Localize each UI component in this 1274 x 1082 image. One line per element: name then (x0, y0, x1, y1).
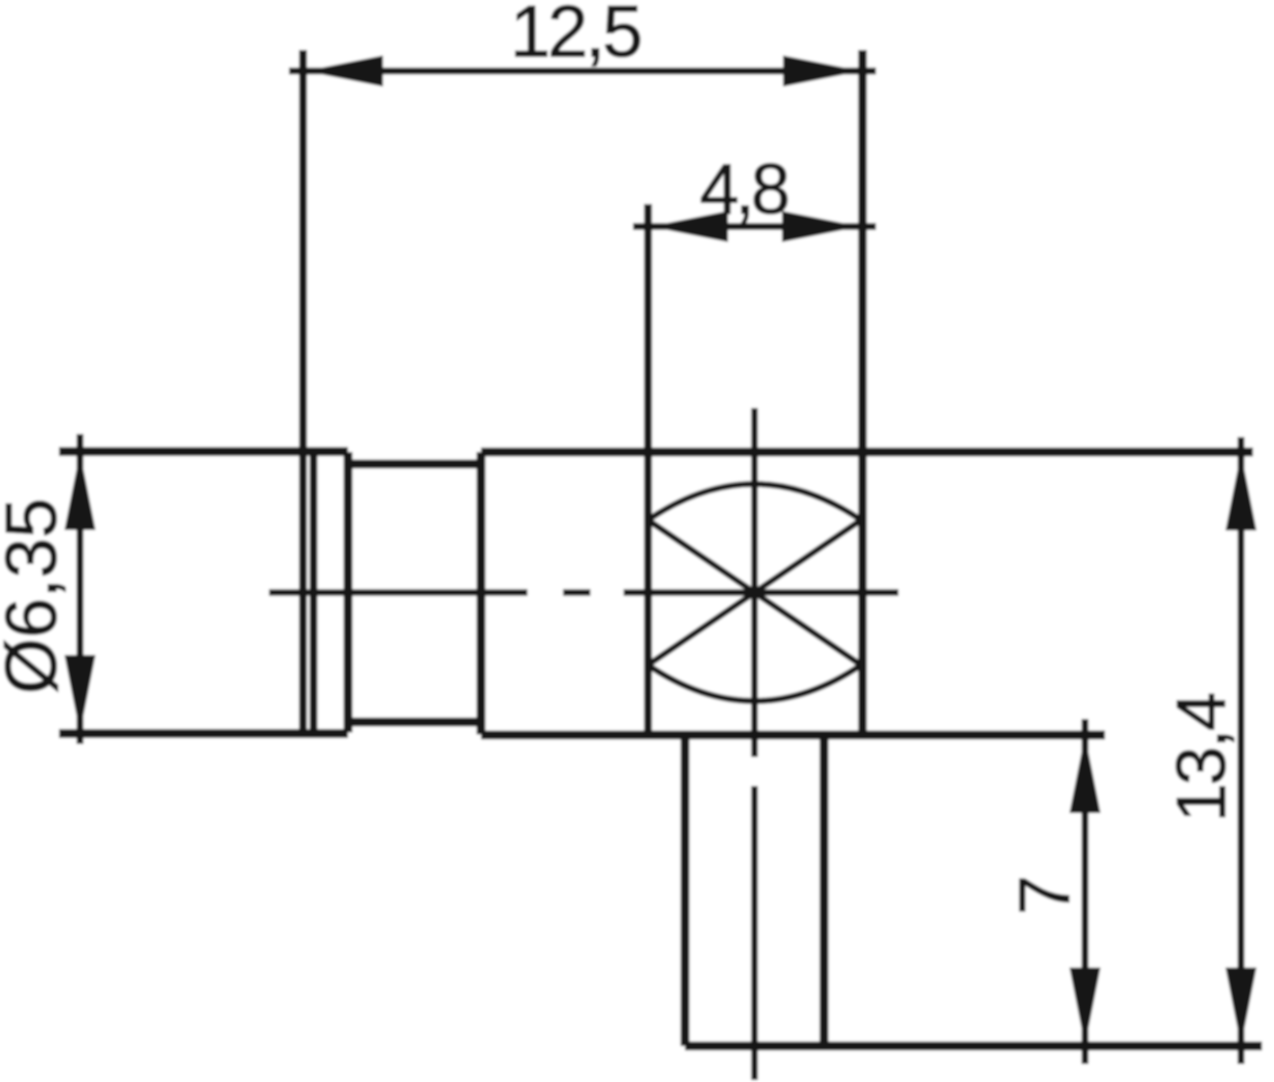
dimension line 4,8 (633, 223, 876, 230)
middle-right section boundary (477, 452, 486, 735)
leg left edge (681, 735, 690, 1047)
arrow 7 up (1070, 735, 1101, 813)
body top edge right with extension for 13,4 (481, 448, 1253, 457)
arrow 13,4 up (1226, 453, 1257, 531)
svg-text:13,4: 13,4 (1162, 694, 1240, 822)
contact lens upper arc (648, 484, 861, 520)
contact cross diagonal 2 (648, 520, 861, 665)
leg right edge (820, 735, 829, 1047)
body right edge / extension line (858, 50, 867, 735)
svg-text:7: 7 (1006, 875, 1085, 915)
middle section bottom edge (348, 718, 481, 727)
leg bottom edge with extension (685, 1042, 1262, 1051)
arrow 7 down (1070, 968, 1101, 1046)
arrow dia 6,35 up (65, 452, 96, 530)
arrow dia 6,35 down (65, 655, 96, 733)
horizontal centerline dash-dot (269, 589, 899, 596)
contact cross diagonal 1 (648, 520, 861, 665)
arrow 4,8 left (650, 211, 728, 242)
body top edge left with extension for dia 6,35 (59, 447, 348, 456)
vertical centerline of leg (751, 408, 758, 1080)
dimension line 13,4 (1238, 437, 1245, 1064)
arrow 12,5 right (783, 56, 861, 87)
dimension line dia 6,35 (77, 434, 84, 744)
body bottom edge left with extension for dia 6,35 (59, 729, 348, 738)
middle section top edge (348, 460, 481, 469)
arrow 13,4 down (1226, 968, 1257, 1046)
svg-text:12,5: 12,5 (510, 0, 640, 73)
inner left edge line (310, 452, 318, 732)
left section right boundary (344, 452, 353, 733)
arrow 12,5 left (305, 56, 383, 87)
dimension line 7 (1082, 719, 1089, 1064)
dimension line 12,5 (289, 68, 876, 75)
arrow 4,8 right (782, 211, 860, 242)
svg-text:4,8: 4,8 (700, 151, 788, 230)
svg-text:Ø6,35: Ø6,35 (0, 498, 72, 694)
contact boundary / extension line 4,8 (644, 204, 652, 735)
body left edge / extension line 12,5 (299, 50, 307, 732)
body bottom edge right with extension for 7 (481, 731, 1105, 740)
contact lens lower arc (648, 665, 861, 701)
